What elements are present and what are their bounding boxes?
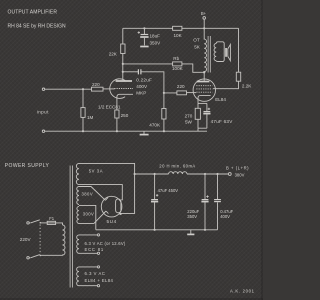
ground (18uF)	[140, 46, 148, 48]
svg-text:100K: 100K	[172, 66, 184, 71]
ECC81 plate bar	[116, 80, 132, 82]
svg-text:A.K. 2001: A.K. 2001	[230, 288, 255, 293]
wire 22K to top rail	[122, 28, 124, 44]
transformer T1 centre tap to ground	[79, 205, 96, 229]
svg-text:2.2K: 2.2K	[242, 84, 252, 89]
ground (amp rail)	[143, 131, 145, 134]
svg-text:B+: B+	[201, 11, 207, 16]
transformer T1 6.3V ECC81 winding	[77, 235, 79, 253]
svg-text:47uF 63V: 47uF 63V	[211, 119, 234, 124]
wire B+ to rail	[203, 19, 205, 28]
svg-text:22K: 22K	[109, 52, 118, 57]
resistor 470K grid leak	[163, 93, 165, 131]
svg-text:350V: 350V	[187, 214, 197, 219]
EL84 g3 dashes	[196, 85, 212, 87]
switch S1b	[29, 255, 40, 258]
capacitor 47uF 450V	[154, 174, 156, 199]
svg-text:POWER SUPPLY: POWER SUPPLY	[5, 163, 50, 169]
wire switch to fuse	[40, 222, 47, 224]
rectifier V3 5U4 envelope	[101, 196, 122, 217]
wire B+ rail to choke	[135, 173, 169, 175]
node EL84 grid junction	[163, 92, 165, 94]
wire ground rail	[45, 130, 207, 132]
resistor 250 cathode	[115, 110, 119, 118]
transformer T1 core	[70, 166, 72, 288]
wire 5V top lead to filament loop	[79, 163, 135, 213]
svg-text:250: 250	[121, 113, 129, 118]
resistor 220 EL84 grid stopper	[177, 91, 187, 95]
node B+ / OT junction	[203, 27, 205, 29]
terminal heater EL84 top	[97, 266, 99, 268]
svg-text:10K: 10K	[174, 33, 183, 38]
node B+ takeoff	[134, 173, 136, 175]
resistor 220 (input grid stopper)	[92, 87, 104, 91]
input terminal J1 top	[42, 88, 44, 90]
transformer OT core	[208, 36, 210, 73]
svg-text:470K: 470K	[149, 122, 161, 127]
speaker LS1	[225, 48, 227, 57]
node 47uF	[154, 173, 156, 175]
svg-text:400V: 400V	[136, 84, 148, 89]
wire top supply rail	[123, 27, 239, 29]
mains terminal bottom	[27, 257, 29, 259]
transformer T1 300V winding	[77, 206, 79, 223]
svg-text:F1: F1	[49, 216, 55, 221]
wire rail to 2.2K	[238, 28, 240, 72]
capacitor 0.47uF 400V	[217, 174, 219, 199]
EL84 cathode with hook	[198, 95, 211, 103]
transformer T1 6.3V EL84 winding	[77, 267, 79, 286]
node EL84 plate junction	[203, 71, 205, 73]
resistor 270 5W cathode	[197, 103, 199, 128]
svg-text:400V: 400V	[220, 214, 230, 219]
wire 300V lead to anode	[79, 211, 108, 223]
ground (PSU)	[190, 230, 192, 234]
svg-text:5K: 5K	[194, 44, 201, 49]
wire cathode network join	[198, 128, 207, 131]
svg-text:300V: 300V	[83, 211, 95, 216]
wire fuse to primary	[56, 223, 63, 225]
terminal heater ECC81 bottom	[97, 252, 99, 254]
svg-text:1M: 1M	[87, 115, 94, 120]
resistor 10K supply dropper	[173, 26, 182, 30]
svg-text:270: 270	[185, 113, 193, 118]
terminal heater EL84 bottom	[97, 285, 99, 287]
svg-text:6.3 V AC: 6.3 V AC	[85, 271, 106, 276]
wire PSU ground rail	[96, 229, 218, 231]
svg-text:EL84: EL84	[215, 97, 226, 102]
svg-text:Rb: Rb	[173, 56, 179, 61]
wire 220 to g1	[187, 92, 197, 94]
capacitor 47uF 63V cathode bypass	[206, 103, 208, 111]
ECC81 grid dashes	[114, 88, 133, 90]
svg-text:1/2 ECC81: 1/2 ECC81	[98, 104, 121, 109]
edge shading right	[261, 0, 263, 300]
svg-text:47uF 450V: 47uF 450V	[158, 188, 179, 193]
svg-text:220: 220	[92, 82, 100, 87]
wire cathode node	[198, 102, 207, 104]
wire 380V lead to anode	[79, 187, 108, 201]
terminal heater ECC81 top	[97, 234, 99, 236]
wire 5V bottom lead	[79, 185, 122, 200]
wire cap to EL84 grid node	[141, 72, 177, 93]
5U4 filament capsule	[116, 199, 121, 213]
resistor 1M (grid leak)	[82, 89, 84, 131]
svg-text:220: 220	[177, 84, 185, 89]
inductor L1 choke 20H	[169, 172, 187, 174]
fuse F1	[47, 221, 55, 224]
ECC81 plate lead	[122, 54, 124, 81]
svg-text:380V: 380V	[82, 192, 94, 197]
wire choke to B+ terminal	[187, 173, 228, 175]
svg-text:20 H min. 60mA: 20 H min. 60mA	[159, 164, 195, 169]
switch S1a	[29, 220, 40, 223]
wire plate to coupling cap	[123, 71, 138, 73]
svg-text:EL84 + EL84: EL84 + EL84	[85, 278, 114, 283]
wire heater leads EL84	[79, 267, 97, 286]
svg-text:5W: 5W	[185, 120, 193, 125]
wire secondary to speaker loop	[216, 42, 224, 62]
transformer OT secondary winding	[214, 44, 216, 61]
svg-text:380V: 380V	[235, 172, 245, 177]
switch link dashed	[39, 225, 41, 255]
transformer T1 380V winding	[77, 187, 79, 205]
node 0.47uF	[216, 173, 218, 175]
ECC81 cathode with hook	[117, 94, 133, 110]
svg-text:350V: 350V	[150, 40, 162, 45]
svg-text:OT: OT	[193, 37, 200, 42]
svg-text:OUTPUT AMPLIFIER: OUTPUT AMPLIFIER	[8, 9, 58, 15]
EL84 g1 dashes	[196, 91, 212, 93]
svg-text:5V 3A: 5V 3A	[89, 168, 103, 173]
transformer T1 5V 3A winding	[76, 163, 79, 184]
svg-text:0.22uF: 0.22uF	[136, 77, 152, 82]
wire 250 to ground rail	[116, 118, 118, 131]
resistor Rb 100K feedback	[173, 62, 182, 66]
node grid-1M junction	[82, 88, 84, 90]
svg-text:220V: 220V	[20, 237, 32, 242]
edge shading bottom	[0, 298, 263, 300]
terminal B+	[203, 17, 206, 20]
wire input to grid node	[45, 88, 92, 90]
wire g2 to 2.2K	[213, 81, 239, 89]
resistor 2.2K screen	[236, 72, 240, 81]
EL84 g2 dashes	[196, 88, 212, 90]
capacitor 18uF 350V	[143, 28, 145, 34]
svg-text:input: input	[37, 110, 49, 115]
wire heater leads ECC81	[79, 235, 97, 253]
node coupling junction	[122, 71, 124, 73]
capacitor 220uF 350V	[204, 174, 206, 199]
mains terminal top	[27, 222, 29, 224]
EL84 plate bar	[197, 81, 210, 83]
node ECC81 plate - Rb junction	[122, 63, 124, 65]
wire plate lead EL84	[203, 72, 205, 80]
triode U1 1/2 ECC81 envelope arc	[110, 79, 125, 99]
svg-text:B + (L+R): B + (L+R)	[226, 165, 249, 170]
svg-text:5U4: 5U4	[107, 219, 117, 224]
svg-text:RH 84 SE by RH DESIGN: RH 84 SE by RH DESIGN	[8, 23, 66, 29]
svg-text:ECC 81: ECC 81	[85, 247, 104, 252]
pentode V2 EL84 envelope	[193, 79, 215, 101]
wire plate to Rb	[123, 63, 173, 65]
node 18uF junction	[143, 27, 145, 29]
svg-text:6.3 V AC (or 12.6V): 6.3 V AC (or 12.6V)	[85, 241, 126, 246]
5U4 filament bottom contact	[120, 213, 122, 215]
terminal B+ output	[228, 173, 231, 176]
node 220uF	[204, 173, 206, 175]
capacitor 0.22uF 400V MKP coupling	[138, 69, 141, 74]
transformer T1 primary winding	[40, 225, 65, 255]
input terminal J1 bottom	[42, 130, 44, 132]
transformer OT 5K primary winding	[204, 28, 206, 72]
svg-text:MKP: MKP	[136, 90, 146, 95]
resistor 22K plate load	[121, 44, 125, 54]
wire 220 to ECC81 grid	[103, 88, 115, 90]
svg-text:18uF: 18uF	[150, 34, 161, 39]
wire Rb to EL84 plate	[182, 64, 204, 72]
